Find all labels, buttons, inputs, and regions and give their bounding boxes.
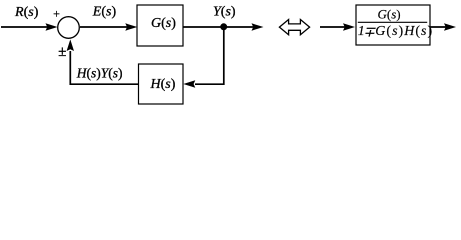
arrowhead output 1 — [252, 23, 264, 30]
svg-text:G(s): G(s) — [151, 16, 176, 31]
equivalence double arrow — [279, 20, 309, 35]
svg-text:Y(s): Y(s) — [213, 5, 236, 20]
wire input R — [1, 26, 48, 28]
fraction bar — [358, 21, 427, 23]
arrowhead into equivalent block — [343, 23, 355, 30]
block H(s) — [139, 64, 184, 104]
wire output equivalent — [430, 26, 447, 28]
wire output Y — [183, 26, 254, 28]
summing junction — [58, 17, 80, 39]
arrowhead into summing junction from below — [67, 39, 74, 51]
svg-text:R(s): R(s) — [14, 5, 39, 20]
svg-text:H(s): H(s) — [150, 77, 176, 92]
svg-text:+: + — [52, 6, 60, 20]
svg-text:E(s): E(s) — [92, 4, 117, 19]
arrowhead final output — [444, 23, 456, 30]
arrowhead into H block — [183, 80, 195, 87]
svg-text:G(s)H(s): G(s)H(s) — [375, 24, 433, 39]
wire feedback down — [195, 27, 224, 84]
arrowhead into G block — [125, 23, 137, 30]
node pickoff point — [220, 23, 227, 30]
block G(s) — [137, 5, 183, 46]
wire H output — [70, 51, 138, 84]
wire E — [80, 26, 128, 28]
svg-text:±: ± — [58, 44, 66, 60]
arrowhead into summing junction — [46, 23, 58, 30]
block equivalent transfer function — [356, 5, 430, 45]
svg-text:G(s): G(s) — [378, 7, 401, 22]
wire input to equivalent block — [320, 26, 346, 28]
svg-text:H(s)Y(s): H(s)Y(s) — [76, 66, 123, 81]
